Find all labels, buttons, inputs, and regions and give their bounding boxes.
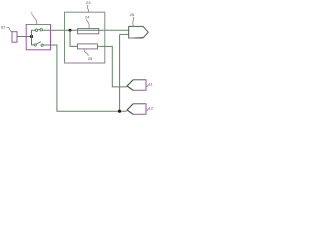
leader wire to terminal 62 [7, 27, 13, 31]
resistor 25 [78, 44, 98, 49]
connector 12 (arrow left) [127, 104, 146, 115]
svg-text:62: 62 [1, 24, 6, 29]
connector 26 bottom edge tint [130, 36, 145, 39]
connector 26 (arrow right) [129, 26, 149, 38]
connector 12 top edge tint [134, 103, 146, 105]
connector 11 (arrow left) [127, 80, 146, 91]
connector 11 apex diagonals [127, 80, 133, 91]
switch box top edge [27, 24, 50, 26]
svg-text:24: 24 [85, 15, 90, 20]
resistor 24 [78, 29, 99, 34]
svg-text:25: 25 [88, 56, 93, 61]
junction dot A [30, 35, 33, 38]
junction dot B [69, 29, 72, 32]
switch S1 bar (closed) [38, 28, 40, 30]
switch box 1 [26, 25, 50, 50]
switch S1 contact right [40, 29, 42, 31]
leader wire label 26 [132, 17, 135, 26]
switch S2 contact right [41, 44, 43, 46]
wire junction B down to resistor 25 [70, 30, 78, 46]
wire junction to top switch [32, 30, 36, 36]
wire terminal to switch junction [17, 36, 32, 38]
wire connector 26 lower pin down to bottom net [120, 33, 129, 35]
svg-text:26: 26 [130, 12, 135, 17]
wire junction to bottom switch [32, 37, 35, 45]
svg-text:11: 11 [149, 81, 154, 86]
connector 11 top edge tint [134, 79, 146, 81]
leader wire label 25 [84, 49, 88, 56]
svg-text:12: 12 [149, 105, 154, 110]
switch S1 contact left [35, 29, 37, 31]
junction dot C [118, 110, 121, 113]
leader wire label 1 [33, 15, 37, 25]
wire bottom switch down and along bottom to connector 12 [43, 45, 126, 111]
wire resistor 25 to connector 11 [98, 46, 127, 87]
leader wire label 11 [146, 85, 149, 87]
leader wire label 12 [146, 109, 149, 111]
svg-text:23: 23 [86, 0, 91, 5]
wire top switch to resistor network (long horizontal) [42, 29, 128, 31]
leader wire label 23 [87, 5, 88, 12]
resistor unit box [65, 12, 105, 63]
switch S2 contact left [34, 44, 36, 46]
connector 12 apex diagonals [127, 104, 133, 115]
svg-text:1: 1 [31, 11, 34, 16]
wire vertical purple to bottom junction [119, 34, 121, 111]
leader wire label 24 [86, 20, 89, 29]
resistor unit box bottom edge [65, 62, 104, 64]
switch S2 lever (open) [36, 42, 41, 45]
terminal 62 (connector box) [12, 32, 17, 43]
